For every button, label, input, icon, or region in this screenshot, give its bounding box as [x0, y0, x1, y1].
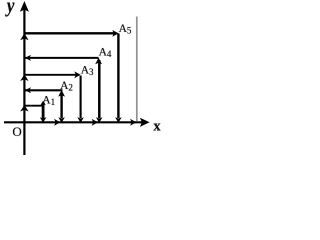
svg-text:O: O — [12, 124, 21, 139]
A3 vertical arrow — [80, 76, 82, 119]
A4 down arrowhead — [96, 117, 103, 123]
svg-text:A4: A4 — [99, 46, 112, 59]
A5 right arrowhead — [112, 30, 118, 37]
A5 horizontal line — [24, 32, 116, 34]
svg-text:x: x — [153, 118, 161, 134]
svg-text:A3: A3 — [81, 65, 94, 78]
A4 up arrowhead — [95, 58, 102, 65]
A2 horizontal line — [25, 89, 63, 91]
right arrowhead on x-axis before A4 — [92, 119, 98, 126]
up arrowhead on y-axis below A5 — [20, 33, 28, 40]
right arrowhead on x-axis before gray line — [130, 119, 136, 126]
A1 up arrowhead — [40, 101, 45, 106]
A4 horizontal line — [25, 57, 99, 59]
y-axis top arrowhead — [20, 1, 29, 12]
svg-text:y: y — [5, 0, 15, 17]
A3 right arrowhead — [74, 71, 80, 78]
A5 vertical arrow — [117, 34, 119, 119]
svg-text:A5: A5 — [119, 23, 132, 36]
A1 vertical arrow — [42, 103, 45, 119]
A3 down arrowhead — [77, 117, 84, 123]
A1 horizontal line — [24, 105, 44, 107]
A4 left arrowhead at y-axis — [25, 55, 31, 61]
A2 left arrowhead at y-axis — [25, 87, 31, 93]
A3 horizontal line — [24, 74, 79, 76]
up arrowhead on y-axis below A1 — [20, 105, 28, 112]
gray limit line — [136, 17, 138, 122]
right arrowhead on x-axis before A2 — [54, 119, 60, 126]
A4 vertical arrow — [98, 60, 101, 118]
svg-text:A1: A1 — [42, 95, 55, 108]
up arrowhead on y-axis below A3 — [20, 74, 28, 81]
y-axis — [23, 9, 25, 155]
x-axis — [4, 121, 142, 123]
x-axis right arrowhead — [140, 118, 150, 127]
A1 down arrowhead — [40, 117, 47, 123]
svg-text:A2: A2 — [60, 80, 73, 93]
A2 down arrowhead — [58, 117, 65, 123]
A2 up arrowhead — [58, 90, 65, 97]
A5 down arrowhead — [115, 117, 122, 123]
A2 vertical arrow — [60, 93, 62, 118]
